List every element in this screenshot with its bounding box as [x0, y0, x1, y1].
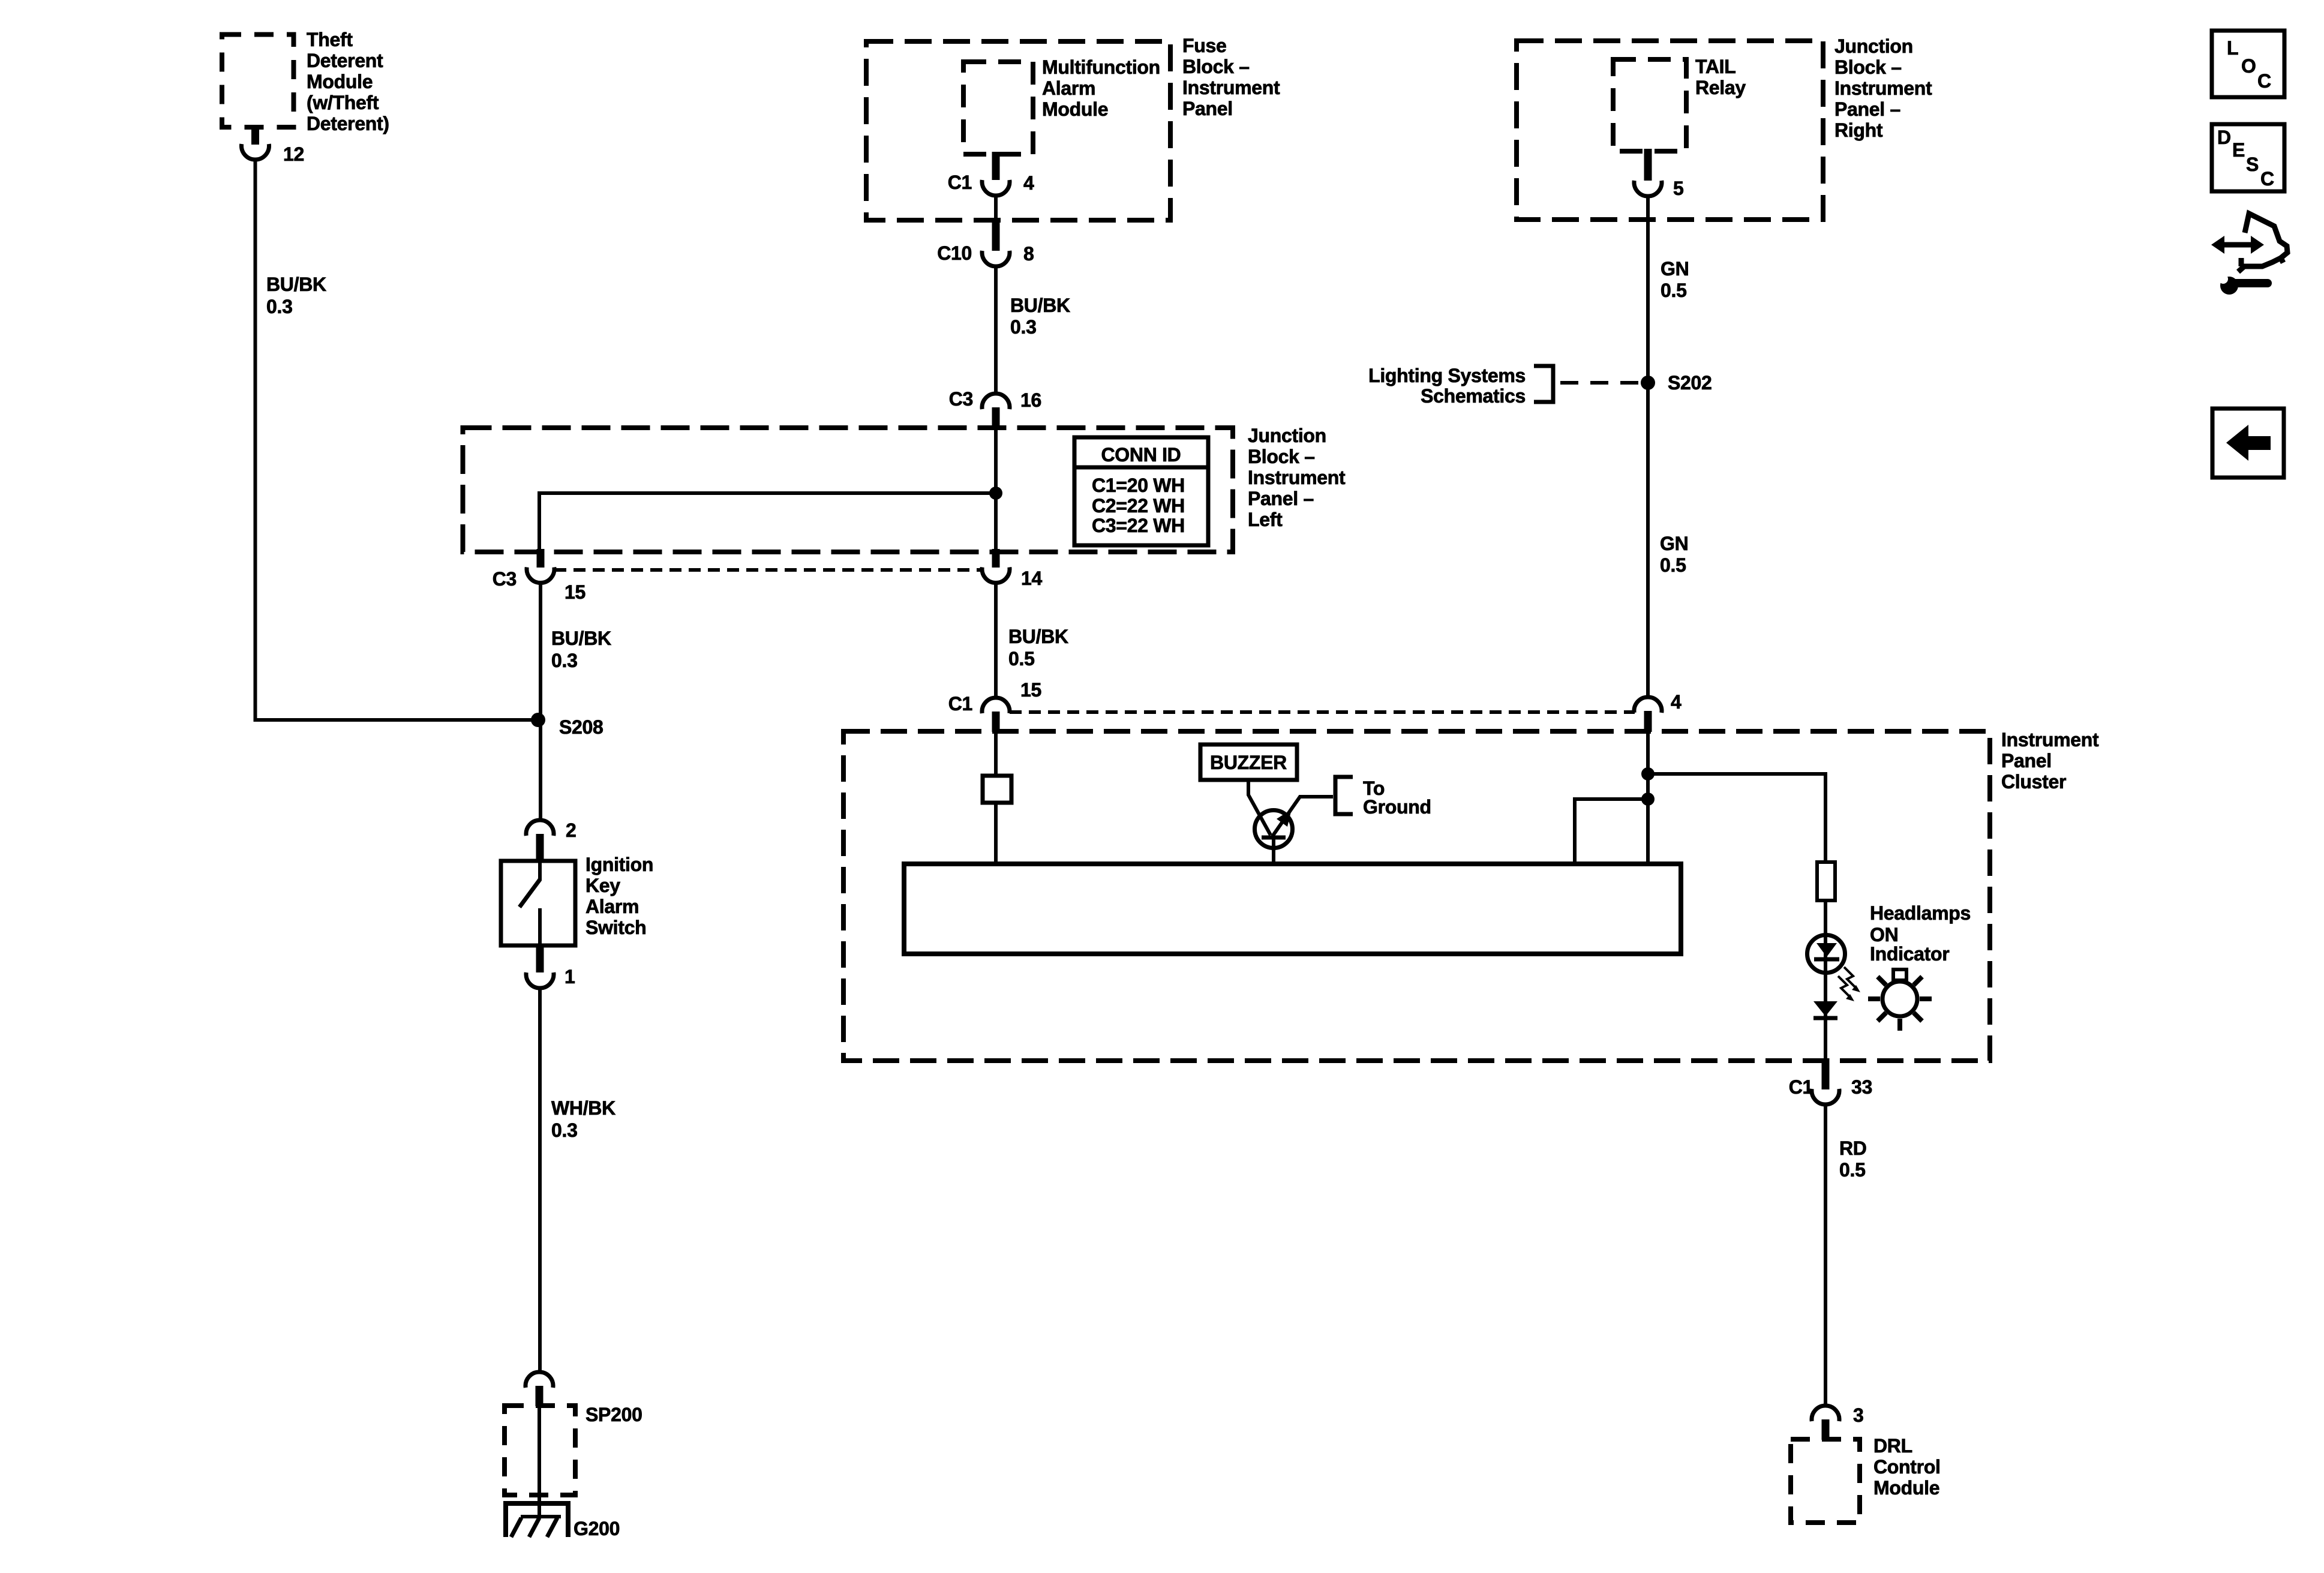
small square component: [983, 776, 1011, 803]
diagnostic icon head outline: [2245, 214, 2287, 263]
connector 14: [982, 568, 1010, 583]
pin stub 5: [1644, 149, 1652, 181]
transistor lead to bus bar: [1272, 837, 1275, 864]
bulb icon circle: [1882, 981, 1917, 1016]
transistor circle: [1255, 810, 1293, 848]
instrument panel cluster box: [843, 731, 1990, 1061]
diagnostic icon wrench: [2220, 277, 2238, 295]
wire C1-4 to C10-8: [994, 195, 998, 223]
svg-text:BUZZER: BUZZER: [1210, 752, 1287, 773]
svg-text:GN0.5: GN0.5: [1660, 533, 1688, 576]
svg-text:3: 3: [1853, 1404, 1864, 1426]
connector 4: [1634, 697, 1662, 713]
connector C1 15: [982, 698, 1010, 713]
to ground bracket: [1335, 777, 1353, 814]
pin stub 4: [1644, 711, 1652, 732]
LED light arrows: [1844, 967, 1856, 988]
svg-text:S208: S208: [559, 716, 603, 738]
wire C3-15 down to S208: [539, 582, 542, 819]
wire 1 down to SP200: [538, 987, 542, 1371]
svg-text:14: 14: [1021, 568, 1042, 589]
svg-text:CONN ID: CONN ID: [1101, 444, 1181, 466]
pin stub 14: [992, 549, 1000, 568]
wire pin 4 down into cluster: [1646, 731, 1650, 864]
svg-text:15: 15: [1020, 679, 1041, 701]
connector 1: [526, 972, 554, 988]
pin stub C1 15: [992, 712, 1000, 732]
svg-text:C10: C10: [937, 242, 972, 264]
cluster bus bar: [904, 864, 1681, 954]
switch upper contact: [538, 861, 542, 881]
DESC icon box: [2212, 124, 2284, 191]
LED circle: [1807, 935, 1845, 973]
wire C10-8 down: [994, 266, 998, 392]
connector C3 15: [527, 568, 554, 583]
switch blade: [520, 879, 540, 907]
svg-text:RD0.5: RD0.5: [1839, 1137, 1867, 1181]
svg-text:S: S: [2246, 154, 2259, 175]
junction block instrument panel right box: [1517, 41, 1823, 220]
svg-text:SP200: SP200: [585, 1404, 642, 1425]
wire 14 down to C1-15: [994, 582, 998, 697]
wire square to bus bar: [994, 803, 998, 864]
connector SP200 top: [526, 1372, 553, 1388]
connector 2: [526, 820, 554, 836]
connector C10 8: [982, 251, 1010, 266]
back arrow icon box: [2212, 409, 2284, 478]
resistor: [1817, 862, 1835, 900]
svg-text:GN0.5: GN0.5: [1661, 258, 1689, 301]
BUZZER box: [1200, 745, 1297, 780]
wire inside junction block (horizontal jumper): [539, 493, 996, 550]
svg-text:C: C: [2260, 168, 2274, 190]
svg-text:S202: S202: [1668, 372, 1712, 394]
svg-text:2: 2: [566, 819, 577, 841]
svg-text:16: 16: [1020, 389, 1041, 411]
junction block instrument panel left box: [463, 428, 1233, 552]
svg-text:O: O: [2241, 55, 2256, 77]
connector C1 33: [1812, 1089, 1839, 1104]
dashed leader to S202: [1560, 381, 1639, 385]
svg-text:8: 8: [1023, 243, 1034, 265]
wire left stub loop to bus bar: [1575, 799, 1648, 864]
fuse block instrument panel box: [866, 41, 1170, 220]
diagnostic icon double arrow: [2222, 242, 2253, 248]
wire resistor to LED: [1824, 900, 1827, 1060]
dotted link C3-15 to 14: [554, 568, 981, 572]
wire BU/BK from theft module: [256, 159, 539, 720]
LED cathode bar: [1814, 957, 1839, 962]
ground G200 bracket: [506, 1503, 568, 1537]
wire 5 down to pin 4: [1646, 196, 1650, 696]
connector C1 4: [982, 180, 1010, 196]
wire C3-16 down through junction block: [994, 427, 998, 552]
SP200 box: [505, 1406, 575, 1495]
pin stub C1 33: [1822, 1058, 1830, 1089]
svg-text:C: C: [2257, 70, 2271, 92]
pin stub 1: [536, 944, 544, 972]
svg-text:L: L: [2227, 37, 2238, 59]
svg-text:4: 4: [1023, 172, 1034, 194]
svg-text:5: 5: [1673, 178, 1684, 199]
svg-text:1: 1: [565, 966, 575, 987]
diagnostic icon jaw: [2238, 258, 2281, 272]
junction dot 1: [1641, 767, 1655, 781]
pin stub C3 16: [992, 407, 1000, 429]
junction dot 2: [1641, 792, 1655, 806]
svg-text:33: 33: [1851, 1076, 1872, 1098]
connector 12: [242, 144, 269, 160]
LED triangle: [1816, 943, 1837, 957]
pin stub 2: [536, 834, 544, 862]
LOC icon box: [2212, 31, 2284, 97]
TAIL relay box: [1613, 59, 1686, 151]
multifunction alarm module box: [963, 62, 1033, 154]
svg-text:C1: C1: [948, 172, 972, 193]
connector 3: [1812, 1406, 1839, 1421]
svg-text:D: D: [2217, 127, 2231, 148]
transistor emitter arrowhead: [1277, 809, 1292, 827]
pin stub C1 4: [992, 152, 1000, 180]
pin stub C10 8: [992, 221, 1000, 251]
transistor base bar: [1262, 836, 1286, 840]
wire buzzer to transistor: [1248, 780, 1271, 835]
bulb rays: [1868, 977, 1932, 1031]
connector C3 16: [982, 394, 1010, 409]
dotted link C1-15 to 4: [1010, 710, 1635, 714]
diode triangle: [1813, 1001, 1837, 1016]
pin stub 12: [251, 125, 259, 145]
junction dot on main wire: [989, 487, 1002, 500]
wire through SP200 box: [538, 1406, 541, 1517]
transistor emitter wire to ground bracket: [1272, 797, 1333, 836]
svg-text:E: E: [2232, 139, 2245, 161]
svg-text:C3: C3: [949, 388, 973, 410]
back arrow: [2226, 425, 2271, 461]
splice S208: [531, 713, 545, 727]
connector 5: [1634, 181, 1662, 196]
ground hatches: [511, 1518, 557, 1537]
bulb nub: [1893, 969, 1906, 980]
svg-text:G200: G200: [574, 1518, 620, 1539]
wire right to indicator branch: [1648, 774, 1825, 862]
svg-text:C3: C3: [493, 568, 517, 590]
pin stub SP200: [536, 1386, 544, 1406]
pin stub 3: [1822, 1419, 1830, 1440]
DRL control module box: [1791, 1439, 1860, 1523]
switch lower contact: [538, 908, 542, 945]
theft deterrent module box: [222, 35, 294, 128]
ground hatch bar: [521, 1515, 561, 1518]
pin stub C3 15: [537, 549, 545, 568]
svg-text:C1=20 WHC2=22 WHC3=22 WH: C1=20 WHC2=22 WHC3=22 WH: [1092, 475, 1185, 536]
diode bar: [1813, 1016, 1837, 1020]
CONN ID header line: [1074, 466, 1208, 470]
svg-text:C1: C1: [1789, 1076, 1813, 1098]
bracket for lighting systems: [1534, 366, 1553, 402]
svg-text:4: 4: [1671, 691, 1682, 713]
ignition key alarm switch box: [501, 861, 575, 945]
splice S202: [1641, 376, 1655, 390]
wire C1-15 into cluster: [994, 731, 998, 776]
svg-text:12: 12: [283, 143, 304, 165]
svg-text:15: 15: [565, 581, 585, 603]
CONN ID table box: [1074, 437, 1208, 545]
svg-text:C1: C1: [948, 693, 972, 715]
wire C1-33 down to DRL: [1824, 1104, 1827, 1404]
